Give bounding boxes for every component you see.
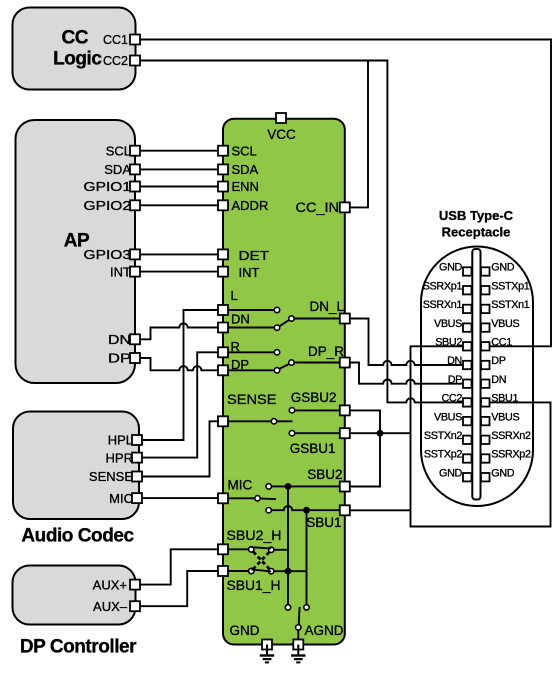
pin U1 VCC bbox=[276, 113, 286, 123]
svg-text:DP Controller: DP Controller bbox=[20, 637, 137, 658]
pin codec MIC bbox=[132, 493, 142, 503]
switch DP_R pivot bbox=[289, 360, 294, 365]
receptacle tongue bbox=[472, 249, 480, 500]
X-switch contact right bottom bbox=[269, 569, 274, 574]
svg-text:SSTXn1: SSTXn1 bbox=[491, 299, 529, 311]
svg-text:GND: GND bbox=[491, 467, 514, 479]
receptacle pin right SSRXn2 bbox=[481, 436, 490, 444]
junction X-switch bottom bbox=[285, 568, 292, 575]
pin U1 AGND bbox=[293, 640, 303, 650]
svg-text:AGND: AGND bbox=[305, 623, 344, 638]
wire SBU2_H stub bbox=[228, 548, 249, 550]
switch DP_R blade bbox=[279, 364, 289, 369]
svg-text:SSTXp2: SSTXp2 bbox=[424, 449, 462, 461]
junction SBU2 node bbox=[285, 483, 292, 490]
svg-text:ENN: ENN bbox=[232, 179, 259, 194]
svg-text:CC2: CC2 bbox=[103, 54, 128, 68]
switch SBU2 line bbox=[271, 485, 340, 487]
svg-text:GPIO1: GPIO1 bbox=[84, 179, 132, 194]
svg-text:DN: DN bbox=[491, 374, 506, 386]
pin AUX+ bbox=[130, 580, 140, 590]
pin AP SDA bbox=[130, 164, 140, 174]
switch GSBU1 contact bbox=[289, 431, 294, 436]
wire GSBU2 to SBU2 loop bbox=[350, 410, 380, 486]
svg-text:SBU2_H: SBU2_H bbox=[227, 528, 282, 543]
svg-text:R: R bbox=[231, 339, 240, 354]
receptacle pin left GND bbox=[463, 473, 472, 481]
switch throw R contact bbox=[274, 350, 279, 355]
svg-text:MIC: MIC bbox=[228, 478, 253, 493]
pin U1 GND bbox=[262, 640, 272, 650]
receptacle pin left SSRXp1 bbox=[463, 286, 472, 294]
receptacle pin right DP bbox=[481, 361, 490, 369]
wire CC1 to receptacle CC1 bbox=[140, 40, 551, 347]
receptacle pin right CC1 bbox=[481, 342, 490, 350]
svg-text:SSRXn1: SSRXn1 bbox=[423, 299, 463, 311]
switch GSBU2 line bbox=[295, 409, 340, 411]
block Audio Codec bbox=[13, 412, 139, 520]
switch DN_L pivot bbox=[289, 316, 294, 321]
pin U1 INT bbox=[218, 267, 228, 277]
receptacle pin left SSTXp2 bbox=[463, 454, 472, 462]
wire SDA bbox=[140, 168, 218, 170]
X-switch cross blade 2 bbox=[253, 552, 269, 569]
pin CC2 bbox=[130, 56, 140, 66]
pin U1 SBU2 bbox=[340, 482, 350, 492]
receptacle pin right DN bbox=[481, 380, 490, 388]
receptacle pin right SSTXp1 bbox=[481, 286, 490, 294]
pin AP INT bbox=[130, 267, 140, 277]
switch throw L contact bbox=[274, 307, 279, 312]
receptacle pin left VBUS bbox=[463, 417, 472, 425]
svg-text:DN: DN bbox=[447, 355, 462, 367]
svg-text:SSRXp1: SSRXp1 bbox=[423, 280, 463, 292]
svg-text:SCL: SCL bbox=[106, 143, 131, 158]
svg-text:SBU2: SBU2 bbox=[307, 467, 342, 482]
pin U1 ENN bbox=[218, 182, 228, 192]
pin U1 DET bbox=[218, 249, 228, 259]
ground symbol AGND bbox=[297, 645, 299, 656]
switch SBU2 contact bbox=[266, 484, 271, 489]
svg-text:USB Type-C: USB Type-C bbox=[439, 208, 514, 223]
wire AUX+ to SBU2_H bbox=[140, 549, 218, 584]
wire AGND stub bbox=[297, 630, 299, 640]
switch throw DN contact bbox=[274, 325, 279, 330]
pin U1 GSBU1 bbox=[340, 428, 350, 438]
wire HPL to L bbox=[143, 310, 218, 440]
svg-text:L: L bbox=[231, 288, 238, 303]
pin U1 SBU1_H bbox=[218, 566, 228, 576]
block audio switch U1 bbox=[223, 119, 345, 645]
wire CC2 branch to CC_IN bbox=[350, 61, 368, 208]
block DP Controller bbox=[13, 566, 136, 625]
wire MIC bbox=[143, 497, 218, 499]
svg-text:VCC: VCC bbox=[267, 127, 296, 142]
pin U1 DP bbox=[218, 365, 228, 375]
pin U1 GSBU2 bbox=[340, 405, 350, 415]
receptacle pin left SBU2 bbox=[463, 342, 472, 350]
svg-text:SBU1: SBU1 bbox=[491, 393, 518, 405]
svg-text:DET: DET bbox=[239, 248, 270, 263]
USB Type-C receptacle outline bbox=[421, 247, 533, 507]
pin AP DN bbox=[130, 334, 140, 344]
pin U1 DN bbox=[218, 323, 228, 333]
junction GSBU2-GSBU1 bbox=[377, 430, 384, 437]
svg-text:SSRXp2: SSRXp2 bbox=[491, 449, 531, 461]
switch SENSE blade bbox=[277, 420, 293, 422]
node SBU1 rail end bbox=[304, 605, 309, 610]
pin codec SENSE bbox=[132, 472, 142, 482]
svg-text:SSTXp1: SSTXp1 bbox=[491, 280, 529, 292]
svg-text:CC_IN: CC_IN bbox=[296, 200, 340, 215]
switch SENSE pivot bbox=[271, 419, 276, 424]
wire GPIO3-DET bbox=[140, 253, 218, 255]
switch DP_R common line bbox=[294, 362, 342, 364]
pin U1 SBU1 bbox=[340, 505, 350, 515]
wire AP DP bbox=[140, 358, 218, 370]
svg-text:CC2: CC2 bbox=[441, 393, 462, 405]
switch MIC blade bbox=[260, 497, 276, 500]
svg-text:GSBU1: GSBU1 bbox=[290, 441, 336, 456]
svg-text:AUX–: AUX– bbox=[93, 599, 128, 614]
switch throw R line bbox=[228, 351, 275, 353]
X-switch cross blade 1 bbox=[253, 552, 269, 569]
svg-text:DP_R: DP_R bbox=[308, 344, 344, 359]
wire SBU1_H stub bbox=[228, 570, 249, 572]
wire CC2 to receptacle CC2 bbox=[140, 61, 463, 403]
receptacle pin left VBUS bbox=[463, 323, 472, 331]
ground symbol GND bbox=[266, 645, 268, 656]
svg-text:VBUS: VBUS bbox=[434, 318, 462, 330]
block CC Logic bbox=[13, 8, 136, 90]
receptacle pin right SSRXp2 bbox=[481, 454, 490, 462]
wire SBU2 rail bbox=[287, 486, 289, 604]
svg-text:Receptacle: Receptacle bbox=[442, 225, 511, 240]
switch DN_L blade bbox=[279, 320, 289, 327]
svg-text:SDA: SDA bbox=[232, 162, 259, 177]
switch throw DP line bbox=[228, 369, 275, 371]
pin CC1 bbox=[130, 35, 140, 45]
pin U1 SDA bbox=[218, 164, 228, 174]
svg-text:HPL: HPL bbox=[108, 433, 133, 448]
svg-text:DP: DP bbox=[491, 355, 505, 367]
wire SBU net to receptacle SBU2/SBU1 bbox=[411, 346, 551, 526]
svg-text:VBUS: VBUS bbox=[491, 411, 519, 423]
svg-text:SBU2: SBU2 bbox=[435, 337, 462, 349]
wire GPIO1-ENN bbox=[140, 186, 218, 188]
receptacle pin left CC2 bbox=[463, 398, 472, 406]
junction SBU1 node bbox=[303, 507, 310, 514]
block AP bbox=[16, 120, 136, 383]
svg-text:SENSE: SENSE bbox=[89, 469, 133, 484]
switch SBU1 line bbox=[271, 506, 340, 510]
receptacle pin right SSTXn1 bbox=[481, 305, 490, 313]
X-switch contact SBU1_H bbox=[249, 568, 254, 573]
switch throw DN line bbox=[228, 327, 275, 329]
switch SBU1 contact bbox=[266, 508, 271, 513]
svg-text:SDA: SDA bbox=[104, 162, 131, 177]
wire X-switch top out bbox=[274, 549, 288, 551]
svg-text:DN: DN bbox=[108, 332, 131, 347]
svg-text:SBU1: SBU1 bbox=[306, 515, 341, 530]
switch SENSE common line bbox=[228, 420, 272, 422]
svg-text:SENSE: SENSE bbox=[227, 392, 277, 407]
receptacle pin right VBUS bbox=[481, 323, 490, 331]
X-switch contact SBU2_H bbox=[249, 547, 254, 552]
svg-text:VBUS: VBUS bbox=[491, 318, 519, 330]
X-switch contact right top bbox=[269, 547, 274, 552]
svg-text:SBU1_H: SBU1_H bbox=[227, 578, 281, 593]
wire SBU1 rail bbox=[306, 510, 308, 605]
switch GSBU2 contact bbox=[289, 408, 294, 413]
wire SCL bbox=[140, 150, 218, 152]
receptacle pin left SSRXn1 bbox=[463, 305, 472, 313]
pin U1 SCL bbox=[218, 146, 228, 156]
pin codec HPR bbox=[132, 453, 142, 463]
svg-text:CC1: CC1 bbox=[491, 337, 512, 349]
receptacle pin left SSTXn2 bbox=[463, 436, 472, 444]
pin AP GPIO1 bbox=[130, 182, 140, 192]
svg-text:SSTXn2: SSTXn2 bbox=[424, 430, 462, 442]
svg-text:SSRXn2: SSRXn2 bbox=[491, 430, 531, 442]
svg-text:CC: CC bbox=[61, 28, 88, 49]
pin U1 CC_IN bbox=[340, 202, 350, 212]
receptacle pin right GND bbox=[481, 473, 490, 481]
pin AP GPIO3 bbox=[130, 249, 140, 259]
svg-text:VBUS: VBUS bbox=[434, 411, 462, 423]
wire X-switch bottom out bbox=[274, 570, 307, 572]
pin AP SCL bbox=[130, 146, 140, 156]
pin AP DP bbox=[130, 353, 140, 363]
svg-text:GND: GND bbox=[491, 262, 514, 274]
node SBU2 rail end bbox=[285, 605, 290, 610]
wire DN_L to receptacle DN bbox=[350, 319, 463, 366]
wire AUX- to SBU1_H bbox=[140, 571, 218, 606]
svg-text:DP: DP bbox=[448, 374, 462, 386]
receptacle pin left DP bbox=[463, 380, 472, 388]
wire GSBU1 bbox=[350, 432, 411, 434]
receptacle pin left GND bbox=[463, 267, 472, 275]
switch AGND pivot bbox=[296, 625, 301, 630]
svg-text:INT: INT bbox=[239, 265, 260, 280]
svg-text:HPR: HPR bbox=[106, 450, 133, 465]
wire GPIO2-ADDR bbox=[140, 204, 218, 206]
X-switch top blade bbox=[251, 547, 271, 548]
pin U1 DP_R bbox=[340, 358, 350, 368]
svg-text:INT: INT bbox=[110, 264, 131, 279]
pin U1 SENSE bbox=[218, 416, 228, 426]
wire INT bbox=[140, 271, 218, 273]
switch throw DP contact bbox=[274, 368, 279, 373]
wire SENSE bbox=[143, 421, 218, 476]
svg-text:Logic: Logic bbox=[53, 49, 102, 70]
svg-text:GND: GND bbox=[439, 262, 462, 274]
pin AUX- bbox=[130, 601, 140, 611]
pin codec HPL bbox=[132, 435, 142, 445]
pin U1 R bbox=[218, 347, 228, 357]
svg-text:MIC: MIC bbox=[109, 491, 133, 506]
X-switch bottom blade bbox=[251, 569, 271, 571]
svg-text:GSBU2: GSBU2 bbox=[291, 390, 337, 405]
pin U1 DN_L bbox=[340, 314, 350, 324]
wire AP DN bbox=[140, 323, 218, 339]
pin U1 ADDR bbox=[218, 200, 228, 210]
wire SBU1 chip bbox=[350, 509, 411, 511]
svg-text:GND: GND bbox=[439, 467, 462, 479]
svg-text:DN: DN bbox=[231, 312, 250, 327]
switch MIC pivot bbox=[255, 496, 260, 501]
svg-text:CC1: CC1 bbox=[103, 33, 128, 47]
svg-text:DP: DP bbox=[231, 357, 249, 372]
pin U1 MIC bbox=[218, 493, 228, 503]
switch DN_L common line bbox=[294, 318, 342, 320]
svg-text:DN_L: DN_L bbox=[309, 299, 344, 314]
receptacle pin left DN bbox=[463, 361, 472, 369]
switch GSBU1 line bbox=[295, 432, 340, 434]
wire DP_R to receptacle DP bbox=[350, 363, 463, 384]
svg-text:ADDR: ADDR bbox=[232, 198, 269, 213]
pin AP GPIO2 bbox=[130, 200, 140, 210]
receptacle pin right SBU1 bbox=[481, 398, 490, 406]
switch MIC common line bbox=[228, 497, 255, 499]
receptacle pin right GND bbox=[481, 267, 490, 275]
svg-text:DP: DP bbox=[108, 351, 131, 366]
pin U1 L bbox=[218, 305, 228, 315]
svg-text:AUX+: AUX+ bbox=[93, 577, 127, 592]
svg-text:GPIO2: GPIO2 bbox=[84, 198, 132, 213]
svg-text:Audio Codec: Audio Codec bbox=[21, 526, 134, 547]
svg-text:SCL: SCL bbox=[232, 143, 257, 158]
svg-text:GPIO3: GPIO3 bbox=[84, 247, 132, 262]
receptacle pin right VBUS bbox=[481, 417, 490, 425]
svg-text:GND: GND bbox=[230, 623, 260, 638]
pin U1 SBU2_H bbox=[218, 544, 228, 554]
switch throw L line bbox=[228, 309, 275, 311]
switch AGND blade bbox=[298, 607, 301, 625]
wire HPR to R bbox=[143, 352, 218, 457]
